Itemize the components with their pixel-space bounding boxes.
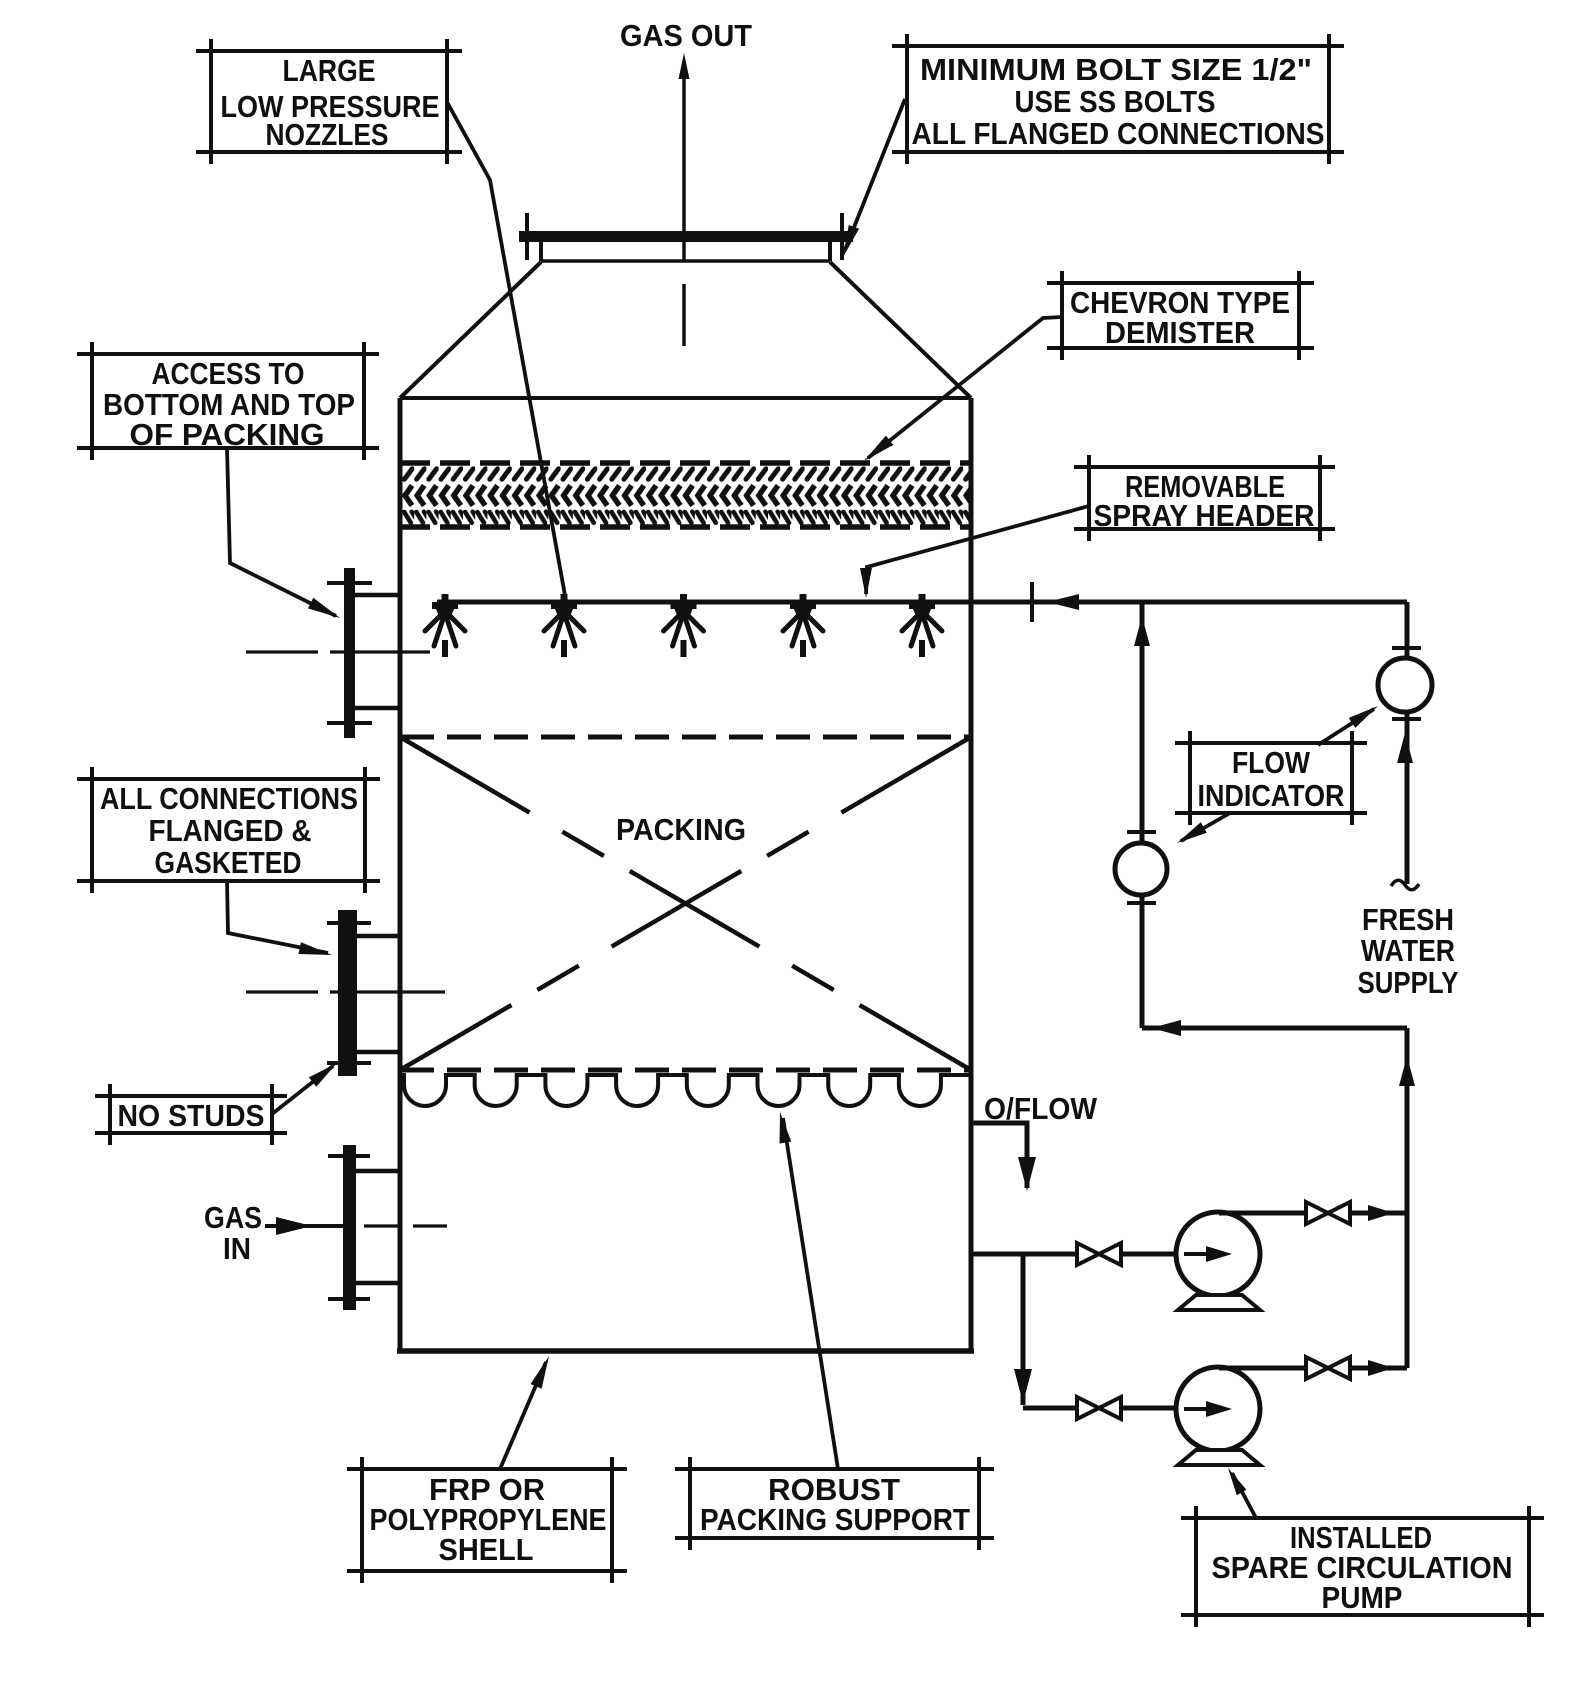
- svg-text:NO STUDS: NO STUDS: [118, 1098, 265, 1133]
- svg-text:FRESH: FRESH: [1362, 902, 1454, 937]
- spray nozzle 4: [783, 594, 823, 657]
- leader arrow at shell: [531, 1356, 549, 1389]
- vessel dome right slope: [830, 262, 971, 398]
- pump 1 suction branch tee riser: [1021, 1254, 1026, 1405]
- pump discharge header: [1142, 1026, 1407, 1031]
- vessel neck collar: [541, 259, 830, 263]
- flow indicator FI1 top tick: [1127, 830, 1156, 834]
- svg-text:INDICATOR: INDICATOR: [1198, 778, 1345, 813]
- demister hatch row 1: [402, 466, 969, 482]
- leader arrow at FI2: [1349, 706, 1378, 728]
- svg-text:SPRAY HEADER: SPRAY HEADER: [1094, 498, 1315, 533]
- scrubber bottoms outlet pipe: [973, 1252, 1176, 1257]
- fresh water up arrow: [1397, 733, 1413, 763]
- demister top dashed line: [400, 460, 971, 466]
- packing bottom dashed line: [400, 1068, 971, 1073]
- flow indicator FI1: [1115, 843, 1167, 895]
- svg-text:GAS: GAS: [204, 1200, 262, 1235]
- demister chevron row 2: [402, 483, 969, 508]
- vessel shell right wall: [969, 398, 974, 1351]
- leader arrow at spare pump: [1228, 1468, 1246, 1495]
- label box NO STUDS: [95, 1094, 287, 1098]
- gas in flow line: [265, 1224, 343, 1228]
- access manway nozzle stubs: [355, 593, 400, 598]
- top flange left bolt tick: [525, 213, 529, 260]
- overflow arrow: [1018, 1157, 1036, 1191]
- leader to FI1: [1181, 813, 1230, 841]
- leader to access manway: [227, 448, 336, 616]
- access manway centerline: [246, 650, 318, 653]
- gas out arrow: [679, 53, 690, 79]
- pump 2 suction valve: [1077, 1397, 1121, 1419]
- leader to packing support: [783, 1118, 838, 1469]
- svg-text:SHELL: SHELL: [439, 1532, 534, 1567]
- label box INSTALLED SPARE PUMP: [1181, 1516, 1544, 1520]
- leader to demister: [868, 317, 1062, 458]
- circulation pump P1: [1176, 1212, 1260, 1296]
- pump 1 suction valve: [1077, 1243, 1121, 1265]
- flow indicator FI2: [1378, 658, 1432, 712]
- svg-text:ALL CONNECTIONS: ALL CONNECTIONS: [100, 781, 358, 816]
- label box FLOW INDICATOR: [1175, 741, 1367, 745]
- pump discharge riser: [1405, 1028, 1410, 1368]
- mid connection blind flange (no studs): [338, 910, 357, 1076]
- svg-text:GAS OUT: GAS OUT: [620, 18, 752, 53]
- spray nozzle 3: [664, 594, 704, 657]
- svg-text:OF PACKING: OF PACKING: [130, 417, 325, 452]
- svg-text:NOZZLES: NOZZLES: [266, 117, 389, 152]
- vessel centerline: [682, 62, 686, 262]
- pump P2 discharge arrow: [1368, 1360, 1394, 1376]
- spare circulation pump P2: [1176, 1367, 1260, 1451]
- gas inlet centerline: [364, 1224, 402, 1227]
- svg-text:FLANGED &: FLANGED &: [149, 813, 312, 848]
- overflow pipe: [973, 1123, 1027, 1188]
- leader arrow at FI1: [1177, 822, 1207, 843]
- gas inlet bottom tick: [328, 1297, 370, 1301]
- svg-text:USE SS BOLTS: USE SS BOLTS: [1015, 84, 1216, 119]
- pump P1 internal arrow: [1184, 1252, 1212, 1256]
- gas inlet top tick: [328, 1154, 370, 1158]
- leader arrow at demister: [864, 436, 893, 461]
- pump P1 discharge pipe: [1219, 1211, 1407, 1216]
- spray nozzle 1: [425, 594, 465, 657]
- vessel shell left wall: [398, 398, 403, 1351]
- demister hatch row 3: [402, 509, 969, 527]
- branch down arrow: [1014, 1369, 1032, 1403]
- gas inlet blind flange: [343, 1145, 356, 1310]
- flow indicator FI1 bottom tick: [1127, 901, 1156, 905]
- pump 2 suction line: [1023, 1406, 1176, 1411]
- mid connection top tick: [327, 921, 371, 925]
- packing cross diagonal 2: [400, 737, 971, 1070]
- label box FRP SHELL: [347, 1467, 627, 1471]
- flow indicator FI2 bottom tick: [1392, 717, 1421, 721]
- svg-text:MINIMUM BOLT SIZE 1/2": MINIMUM BOLT SIZE 1/2": [920, 52, 1312, 87]
- demister bottom dashed line: [400, 524, 971, 530]
- vessel shell top edge: [400, 396, 971, 400]
- mid connection nozzle stubs: [357, 934, 400, 939]
- svg-text:ALL FLANGED CONNECTIONS: ALL FLANGED CONNECTIONS: [912, 116, 1325, 151]
- riser up arrow: [1134, 616, 1150, 646]
- gas inlet nozzle stubs: [356, 1169, 400, 1174]
- pump P2 discharge pipe: [1219, 1366, 1407, 1371]
- pump P2 internal arrow: [1184, 1407, 1212, 1411]
- vessel shell bottom edge: [397, 1348, 974, 1354]
- access manway bottom tick: [327, 721, 372, 725]
- svg-text:ACCESS TO: ACCESS TO: [152, 356, 305, 391]
- svg-text:IN: IN: [223, 1231, 251, 1266]
- spray header pipe: [437, 600, 1407, 605]
- spray header inlet arrow: [1047, 594, 1079, 610]
- svg-text:SUPPLY: SUPPLY: [1358, 965, 1459, 1000]
- gas outlet top flange: [519, 231, 853, 242]
- pump discharge header arrow: [1151, 1020, 1181, 1036]
- svg-text:GASKETED: GASKETED: [155, 845, 302, 880]
- mid connection bottom tick: [327, 1061, 371, 1065]
- header feed pipe junction riser: [1140, 602, 1145, 1028]
- access manway top tick: [327, 581, 372, 585]
- label box ALL CONNECTIONS FLANGED: [77, 777, 380, 781]
- leader to spray nozzles: [447, 102, 566, 601]
- leader arrow at mid connection: [299, 942, 333, 955]
- svg-text:FLOW: FLOW: [1232, 745, 1311, 780]
- svg-text:LARGE: LARGE: [283, 53, 376, 88]
- top flange right bolt tick: [840, 213, 844, 260]
- svg-text:PACKING SUPPORT: PACKING SUPPORT: [700, 1502, 970, 1537]
- fresh water drop pipe: [1405, 602, 1410, 884]
- leader to mid connection: [227, 881, 328, 953]
- label box ROBUST PACKING SUPPORT: [675, 1467, 994, 1471]
- svg-text:DEMISTER: DEMISTER: [1105, 315, 1255, 350]
- leader arrow at access manway: [308, 598, 340, 618]
- leader to shell: [500, 1362, 546, 1469]
- leader arrow at packing support: [780, 1112, 792, 1144]
- svg-text:PACKING: PACKING: [616, 812, 746, 847]
- svg-text:PUMP: PUMP: [1322, 1580, 1403, 1615]
- label box CHEVRON TYPE DEMISTER: [1047, 281, 1314, 285]
- vessel dome left slope: [400, 262, 541, 398]
- spray nozzle 5: [902, 594, 942, 657]
- label box ACCESS TO PACKING: [77, 352, 379, 356]
- leader arrow at top flange: [843, 225, 859, 257]
- spray header inlet flange tick: [1030, 582, 1034, 622]
- packing cross diagonal 1: [400, 737, 971, 1070]
- leader arrow at spray header: [860, 568, 872, 598]
- pump P2 base feet: [1178, 1450, 1260, 1465]
- packing support scalloped plate: [400, 1075, 971, 1106]
- svg-text:WATER: WATER: [1361, 933, 1455, 968]
- mid connection centerline: [246, 990, 318, 993]
- leader arrow at no-studs flange: [309, 1063, 337, 1087]
- access manway blind flange: [344, 568, 355, 738]
- pump P1 discharge valve: [1306, 1202, 1350, 1224]
- label box LARGE LOW PRESSURE NOZZLES: [196, 49, 462, 53]
- flow indicator FI2 top tick: [1392, 646, 1421, 650]
- pump P1 base feet: [1178, 1295, 1260, 1310]
- label box REMOVABLE SPRAY HEADER: [1074, 465, 1335, 469]
- gas in flow arrow: [276, 1217, 312, 1235]
- fresh water supply break squiggle: [1391, 880, 1419, 890]
- pump P1 discharge arrow: [1368, 1205, 1394, 1221]
- leader to top flange: [845, 99, 905, 250]
- spray nozzle 2: [544, 594, 584, 657]
- packing top dashed line: [400, 735, 971, 740]
- leader to no-studs flange: [272, 1066, 333, 1114]
- pump P2 discharge valve: [1306, 1357, 1350, 1379]
- leader to spare pump: [1232, 1473, 1256, 1518]
- pump discharge riser arrow: [1399, 1056, 1415, 1086]
- leader to FI2: [1318, 709, 1374, 745]
- leader to spray header: [866, 506, 1089, 594]
- label box MINIMUM BOLT SIZE: [892, 44, 1344, 48]
